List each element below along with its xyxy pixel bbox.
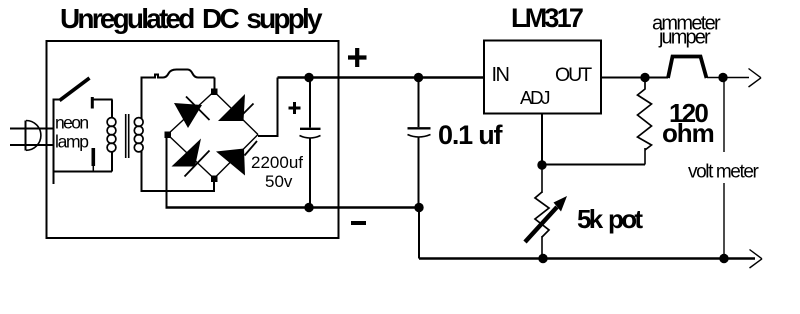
- node: junction dot pot bottom: [538, 254, 547, 263]
- wire: bridge left corner down to - rail: [166, 137, 168, 208]
- bridge node left (square): [165, 132, 172, 139]
- AC plug prong bottom: [10, 144, 53, 146]
- potentiometer R2 wiper arrow: [525, 207, 557, 242]
- wire: volt meter lead upper: [723, 80, 725, 152]
- regulator U1 LM317 box: [484, 41, 601, 114]
- diode D4 bar: [245, 141, 258, 156]
- capacitor C1 plus mark: [289, 107, 301, 110]
- wire: bridge top lead: [214, 78, 216, 92]
- capacitor C2 top plate: [408, 127, 431, 129]
- diode D3 bar: [185, 151, 210, 177]
- potentiometer R2 zigzag: [535, 192, 549, 237]
- transformer T1 core: [125, 114, 127, 158]
- wire: volt meter lead lower: [723, 183, 725, 256]
- switch S1 left stub: [53, 99, 61, 101]
- output arrow bottom: [750, 250, 763, 259]
- wire: ADJ pin down: [541, 114, 543, 166]
- switch S1 contact wire: [92, 99, 113, 101]
- wire: transformer primary top lead: [111, 100, 113, 119]
- neon lamp electrode bottom: [92, 148, 96, 166]
- node: junction dot at C2 top: [414, 73, 423, 82]
- bridge node top (square): [211, 89, 218, 96]
- capacitor C2 bottom lead: [418, 138, 420, 208]
- resistor R1 120 ohm zigzag: [638, 78, 652, 151]
- wire: bridge right corner to + rail: [258, 78, 278, 137]
- wire: primary loop bottom: [53, 171, 113, 173]
- potentiometer R2 bottom lead: [541, 236, 543, 259]
- diode D4 (bottom-right): [216, 149, 245, 176]
- capacitor C2 top lead: [418, 78, 420, 128]
- node: ADJ junction dot: [537, 160, 546, 169]
- svg-text:lamp: lamp: [55, 132, 88, 152]
- node: junction dot at resistor top: [640, 73, 649, 82]
- wire: + rail after jumper: [707, 77, 749, 79]
- node: junction dot C2 bottom: [414, 203, 423, 212]
- capacitor C1 bottom plate (curved): [300, 136, 321, 139]
- node: junction dot after jumper: [718, 73, 727, 82]
- wire: secondary top lead: [141, 78, 143, 120]
- transformer T1 primary coil: [107, 118, 116, 152]
- ammeter jumper bump: [668, 57, 707, 79]
- svg-text:jumper: jumper: [658, 27, 711, 49]
- wire: primary loop left vertical: [53, 99, 55, 185]
- svg-text:2200uf: 2200uf: [251, 153, 303, 172]
- node: junction dot volt meter bottom: [719, 254, 728, 263]
- wire: + rail: [278, 76, 485, 78]
- svg-text:OUT: OUT: [555, 64, 592, 86]
- capacitor C2 bottom plate (curved): [408, 135, 431, 138]
- capacitor C1 bottom lead: [309, 139, 311, 208]
- svg-text:Unregulated DC supply: Unregulated DC supply: [60, 3, 323, 34]
- svg-text:ohm: ohm: [662, 118, 714, 148]
- neon lamp electrode top: [91, 97, 94, 109]
- svg-text:50v: 50v: [265, 172, 293, 191]
- wire: resistor bottom lead: [644, 148, 646, 165]
- wire: ADJ junction to resistor bottom: [542, 164, 645, 166]
- output arrow top: [749, 69, 762, 78]
- svg-text:IN: IN: [492, 64, 509, 86]
- label + output: [348, 55, 367, 59]
- svg-text:volt meter: volt meter: [688, 162, 759, 183]
- bridge rectifier edges: [168, 92, 259, 179]
- wire: - rail inside box: [166, 206, 420, 209]
- diode D3 (bottom-left): [172, 139, 202, 167]
- diode D1 bar: [186, 97, 210, 121]
- neon lamp electrode bottom thin lead: [92, 166, 94, 172]
- svg-text:neon: neon: [55, 113, 88, 133]
- wire: + rail after LM317: [601, 77, 668, 79]
- enclosure box of unregulated supply: [47, 41, 339, 238]
- AC plug body arc: [26, 121, 41, 151]
- wire: primary loop right vertical: [111, 152, 113, 172]
- node: junction dot at C1 top: [304, 73, 313, 82]
- AC plug prong top: [10, 128, 53, 130]
- AC plug body bar: [25, 121, 27, 151]
- label - output: [351, 221, 366, 225]
- capacitor C1 top plate: [300, 128, 321, 130]
- svg-text:5k pot: 5k pot: [577, 204, 643, 234]
- diode D1 (top-left): [174, 103, 202, 128]
- diode D2 bar: [241, 104, 254, 117]
- svg-text:0.1 uf: 0.1 uf: [438, 120, 504, 150]
- svg-text:ADJ: ADJ: [520, 87, 549, 108]
- potentiometer R2 top lead: [541, 165, 543, 193]
- wire: secondary bottom lead: [142, 151, 215, 191]
- diode D2 (top-right): [218, 94, 245, 121]
- switch S1 lever: [60, 78, 90, 101]
- wire: secondary to bridge top with hump: [141, 70, 215, 78]
- bridge node bottom (square): [211, 176, 218, 183]
- node: junction dot C1 bottom: [304, 203, 313, 212]
- svg-text:LM317: LM317: [511, 3, 583, 33]
- capacitor C1 top lead: [309, 78, 311, 128]
- transformer T1 secondary coil: [134, 118, 143, 152]
- wire: - rail drop: [418, 208, 420, 259]
- wire: - rail bottom: [419, 257, 755, 259]
